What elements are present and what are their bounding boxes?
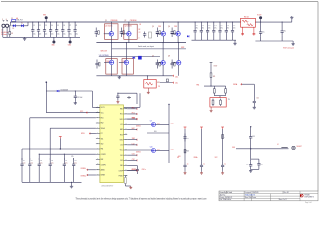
title block cols	[226, 191, 300, 201]
svg-text:2N7002: 2N7002	[136, 126, 141, 128]
svg-text:C61: C61	[187, 137, 190, 139]
svg-text:22u: 22u	[76, 34, 79, 36]
kelvin sense wire 2	[253, 27, 256, 35]
svg-text:Q8: Q8	[168, 55, 170, 57]
label col VCC	[215, 157, 218, 159]
net label right 10	[132, 159, 138, 162]
wire right pin row 9	[127, 154, 131, 156]
wire col VCC	[222, 129, 224, 162]
svg-text:C4: C4	[51, 25, 53, 27]
ground bottom caps	[70, 182, 73, 188]
svg-text:47u: 47u	[227, 28, 229, 30]
svg-text:HB1: HB1	[132, 107, 135, 109]
DNP text Q1 box	[105, 25, 112, 27]
capacitor C42	[206, 21, 211, 40]
wire row6 res	[147, 131, 169, 133]
svg-text:HO1: HO1	[120, 114, 123, 116]
wire cap col 73.7 top	[71, 156, 74, 160]
comp box red	[210, 98, 226, 107]
net flag AGND	[81, 168, 96, 171]
DNP text Q4 box	[123, 61, 126, 63]
net flag DEMB	[81, 174, 96, 178]
alt-FET box Q4 row2	[122, 59, 133, 75]
wire source row1 to SW rail	[128, 36, 130, 43]
wire LO1 bst	[127, 118, 137, 121]
ground R7	[129, 186, 132, 189]
svg-text:2N7002: 2N7002	[136, 152, 141, 154]
capacitor C6	[61, 21, 66, 37]
svg-text:VOUT: VOUT	[214, 66, 218, 68]
gnd rail output caps	[192, 39, 237, 41]
svg-text:Designed: 12/04/2020: Designed: 12/04/2020	[245, 192, 259, 194]
wire drain row1	[128, 21, 129, 31]
capacitor C40	[194, 21, 199, 40]
sheet border right	[317, 2, 319, 192]
wire source row2 to PGND rail	[125, 65, 127, 76]
svg-text:ILIM1: ILIM1	[171, 123, 174, 125]
title text row4	[220, 198, 287, 201]
kelvin sense wire 1	[241, 27, 244, 35]
capacitor C53	[249, 126, 255, 149]
wire right pin row 10	[127, 159, 131, 161]
wire drain row2	[111, 42, 112, 60]
capacitor C22	[38, 158, 43, 182]
label Q6	[168, 26, 177, 28]
svg-text:C44: C44	[221, 25, 224, 27]
svg-text:COMP1: COMP1	[101, 154, 106, 156]
sense component	[166, 79, 168, 82]
label Q2	[124, 20, 137, 22]
label switch node	[138, 45, 154, 48]
net label right 9	[132, 154, 138, 157]
svg-text:B1: B1	[140, 24, 142, 26]
svg-text:C41: C41	[202, 25, 205, 27]
transistor Q1	[104, 32, 114, 36]
title text row3	[220, 196, 257, 199]
net flag col SS	[184, 127, 187, 129]
svg-text:HB2: HB2	[120, 129, 123, 131]
pin 24 right	[120, 154, 127, 157]
wire drain row2	[126, 42, 127, 60]
svg-text:C7: C7	[69, 25, 71, 27]
svg-text:47u: 47u	[202, 28, 204, 30]
svg-text:VCC: VCC	[101, 112, 104, 114]
svg-text:HB2: HB2	[132, 128, 135, 130]
label SW2	[181, 47, 184, 49]
net label right 6	[132, 138, 138, 141]
svg-text:COMP: COMP	[118, 170, 122, 172]
capacitor C30	[127, 165, 146, 174]
svg-text:Q1: Q1	[105, 20, 107, 22]
capacitor C54	[246, 159, 252, 169]
svg-text:LO2: LO2	[120, 145, 123, 147]
label col1 flag	[178, 156, 181, 158]
ground 5V caps	[249, 169, 252, 172]
wire right pin row 0	[127, 108, 131, 110]
power bar VOUT div	[210, 63, 218, 68]
svg-text:0.1u: 0.1u	[40, 163, 43, 165]
svg-text:VCCX: VCCX	[101, 107, 105, 109]
svg-text:0.1u: 0.1u	[23, 163, 26, 165]
gate capacitor row1	[120, 28, 125, 38]
label Q1	[105, 20, 118, 22]
wire R1 to gnd rail	[9, 35, 11, 38]
wire Q10 to bus	[156, 149, 174, 151]
wire 5V rail	[232, 147, 283, 149]
svg-text:R11: R11	[213, 76, 216, 78]
capacitor C1	[31, 21, 36, 37]
svg-text:22u: 22u	[51, 34, 54, 36]
wire FB col	[50, 128, 96, 160]
svg-text:2.2: 2.2	[139, 32, 141, 34]
ground C12	[74, 102, 77, 105]
resistor R17 col3	[222, 135, 226, 139]
svg-text:R10: R10	[157, 82, 160, 84]
wire sense to vout	[255, 21, 291, 23]
transistor Q10	[127, 147, 155, 154]
wire connector to fuse	[9, 22, 11, 26]
pin 16 right	[120, 113, 127, 116]
svg-text:CS1: CS1	[132, 154, 135, 156]
svg-text:Q2 CSD185: Q2 CSD185	[125, 25, 132, 27]
pin 5 left	[96, 127, 105, 130]
svg-text:22u: 22u	[33, 34, 36, 36]
svg-text:C20: C20	[23, 160, 26, 162]
pin 9 left	[96, 148, 104, 151]
wire col SS	[184, 129, 186, 162]
earth vout terminal	[290, 16, 293, 22]
wire right pin row 6	[127, 139, 131, 141]
LO gate wire	[99, 54, 160, 57]
pin 13 left	[96, 168, 105, 171]
wire col VDDA	[201, 129, 203, 162]
svg-text:C21: C21	[31, 160, 34, 162]
svg-text:EN1: EN1	[101, 118, 104, 120]
wire drain row2	[163, 42, 164, 60]
net flag GND top2	[6, 19, 8, 22]
svg-text:C55: C55	[260, 163, 263, 165]
inductor L1	[138, 56, 141, 59]
svg-text:SS2: SS2	[101, 144, 104, 146]
wire VCC loop top	[46, 90, 92, 92]
title text row2	[220, 194, 256, 197]
svg-text:COMP2: COMP2	[101, 164, 106, 166]
node VCC dot	[46, 81, 48, 112]
svg-text:0.1u: 0.1u	[31, 163, 34, 165]
pin 8 left	[96, 142, 104, 145]
boot diode D3	[187, 35, 189, 37]
svg-text:CS2: CS2	[120, 160, 123, 162]
svg-text:C8: C8	[76, 25, 78, 27]
title text row1	[220, 191, 289, 194]
svg-text:Q10: Q10	[150, 147, 153, 149]
net flag RT	[81, 132, 96, 135]
svg-text:22u: 22u	[63, 34, 66, 36]
capacitor C62	[221, 162, 226, 171]
PGND rail	[96, 75, 173, 77]
transistor Q2	[121, 32, 131, 36]
capacitor C12	[74, 90, 83, 101]
net tie circle 1	[52, 37, 56, 46]
pin 28 right	[119, 174, 128, 177]
gnd rail caps	[28, 36, 80, 38]
svg-text:R16: R16	[186, 150, 189, 152]
label VIN input	[1, 32, 9, 36]
capacitor C24	[63, 158, 68, 182]
wire SS1 col	[22, 149, 96, 160]
kelvin CS line	[160, 82, 179, 85]
svg-text:DEMB: DEMB	[101, 175, 105, 177]
svg-text:GND: GND	[68, 45, 71, 47]
svg-text:22u: 22u	[39, 34, 42, 36]
svg-text:C3: C3	[45, 25, 47, 27]
svg-text:C30 1u: C30 1u	[142, 169, 146, 171]
svg-text:0.1u: 0.1u	[65, 163, 68, 165]
svg-text:0.1u: 0.1u	[74, 163, 77, 165]
wire drain row2	[178, 42, 179, 60]
svg-text:HO1: HO1	[132, 112, 135, 114]
capacitor C52	[253, 84, 259, 106]
svg-text:VCC: VCC	[120, 150, 123, 152]
capacitor C3	[43, 21, 48, 37]
svg-text:C42: C42	[208, 25, 211, 27]
svg-text:CSD: CSD	[158, 26, 161, 28]
svg-text:FB1: FB1	[101, 149, 104, 151]
svg-text:22u: 22u	[57, 34, 60, 36]
pin 2 left	[96, 111, 104, 114]
label SW1	[101, 51, 107, 53]
wire resistor branch	[9, 26, 11, 32]
inductor L2	[277, 144, 289, 149]
svg-text:HB1: HB1	[120, 109, 123, 111]
gate capacitor row2	[95, 60, 100, 69]
svg-text:C5: C5	[57, 25, 59, 27]
svg-text:100k: 100k	[157, 123, 160, 125]
capacitor C8	[74, 21, 79, 37]
svg-text:FB1: FB1	[120, 165, 123, 167]
ground col VCC	[221, 170, 224, 174]
transistor Q4	[119, 60, 129, 64]
label Q5	[152, 26, 161, 28]
label Q2b	[139, 24, 142, 39]
resistor R14	[212, 99, 214, 106]
capacitor C23	[49, 158, 54, 182]
net flag VDDA mid	[59, 137, 62, 150]
capacitor C45	[225, 21, 230, 40]
sense box R20	[241, 16, 256, 27]
wire right pin row 7	[127, 144, 131, 146]
svg-text:SW2: SW2	[181, 47, 184, 49]
ground sense	[147, 88, 150, 94]
title block frame	[219, 191, 318, 201]
wire Q9 to bus	[156, 123, 174, 125]
svg-text:Q2: Q2	[124, 20, 126, 22]
pin 14 left	[96, 174, 105, 177]
svg-text:C2: C2	[39, 25, 41, 27]
capacitor C25	[72, 158, 77, 182]
svg-text:1u: 1u	[187, 164, 189, 166]
DNP text Q2 box	[125, 25, 132, 27]
svg-text:LO1: LO1	[120, 124, 123, 126]
gnd rail input	[3, 36, 28, 38]
pin 15 right	[120, 107, 127, 110]
wire source row1 to SW rail	[177, 36, 179, 43]
wire to bias cap	[233, 83, 254, 86]
ground col SS	[184, 170, 187, 174]
pin 17 right	[120, 118, 128, 121]
svg-text:ILIM2: ILIM2	[171, 149, 174, 151]
wire SS2 col	[39, 154, 96, 160]
svg-text:C46: C46	[233, 25, 236, 27]
wire D1 to D2	[15, 25, 21, 27]
wire EN1 to col	[30, 118, 96, 160]
TVS diode D1	[12, 24, 16, 30]
wire source row1 to SW rail	[162, 36, 164, 43]
svg-text:Q9: Q9	[150, 121, 152, 123]
svg-text:R2: R2	[139, 29, 141, 31]
DNP text Q3 box	[107, 61, 110, 63]
svg-text:CS1: CS1	[120, 155, 123, 157]
svg-text:C25: C25	[74, 160, 77, 162]
resistor R15	[220, 99, 222, 106]
gate capacitor row1	[156, 28, 161, 38]
wire D2 up to rail	[23, 22, 28, 26]
svg-text:VOUT sense gnd: VOUT sense gnd	[283, 47, 294, 49]
svg-text:CS2: CS2	[132, 159, 135, 161]
pin 3 left	[96, 116, 104, 119]
TI logo	[300, 193, 314, 198]
svg-text:0.1u: 0.1u	[262, 32, 265, 34]
capacitor C4	[49, 21, 54, 37]
ground C13	[116, 100, 119, 103]
op-amp U1 controller	[100, 105, 124, 187]
net flag left pin2	[80, 111, 87, 114]
svg-text:47u: 47u	[221, 28, 223, 30]
svg-text:VIN 8-18V: VIN 8-18V	[1, 32, 9, 34]
svg-text:C40: C40	[196, 25, 199, 27]
svg-text:SS1: SS1	[178, 156, 181, 158]
svg-text:CS2+: CS2+	[175, 76, 179, 78]
pin 26 right	[120, 164, 127, 167]
net label right 0	[132, 107, 138, 110]
svg-text:SW2: SW2	[132, 138, 135, 140]
svg-text:CSD18540: CSD18540	[130, 20, 137, 22]
svg-text:R20 2m: R20 2m	[244, 16, 250, 18]
capacitor C41	[200, 21, 205, 40]
wire rail to sense box	[147, 75, 148, 79]
fuse F1	[11, 17, 18, 22]
label VIN_FLT	[17, 20, 23, 22]
svg-text:47u: 47u	[214, 28, 216, 30]
capacitor C7	[67, 21, 72, 37]
net label right 1	[132, 112, 138, 115]
label comp	[228, 99, 230, 101]
pin 10 left	[96, 153, 106, 156]
wire source row2 to PGND rail	[178, 65, 180, 76]
capacitor C20	[20, 158, 25, 182]
gate capacitor row2	[156, 60, 161, 69]
transistor Q7	[156, 61, 166, 65]
pin 22 right	[120, 143, 127, 146]
svg-text:BST1: BST1	[132, 118, 136, 120]
gnd rail bottom caps	[22, 181, 82, 183]
ground power stage A	[118, 76, 121, 79]
alt-FET box Q1 row1	[105, 24, 119, 40]
svg-text:D1: D1	[12, 28, 14, 30]
pin 19 right	[120, 128, 127, 131]
svg-text:C1: C1	[33, 25, 35, 27]
svg-text:22u: 22u	[45, 34, 48, 36]
svg-text:PG: PG	[132, 169, 134, 171]
net label right row13	[127, 169, 137, 172]
page number text	[305, 202, 312, 204]
disclaimer text	[76, 198, 207, 201]
wire source row2 to PGND rail	[111, 65, 113, 76]
sense resistor box R10	[144, 80, 160, 89]
svg-text:HO2: HO2	[120, 134, 123, 136]
net tie circle 2	[68, 37, 72, 46]
svg-text:VOSNS-: VOSNS-	[81, 168, 87, 170]
svg-text:D2: D2	[21, 23, 23, 25]
pin 18 right	[120, 123, 127, 126]
power flag VOUT	[257, 15, 262, 23]
svg-text:C52: C52	[256, 97, 259, 99]
svg-text:R1: R1	[11, 33, 13, 35]
svg-text:This schematic is provided as-: This schematic is provided as-is for ref…	[76, 198, 207, 201]
title block rows	[219, 194, 318, 199]
svg-text:0.1u: 0.1u	[51, 163, 54, 165]
ground vout	[291, 41, 294, 46]
ground output caps	[233, 40, 236, 45]
svg-text:SW1: SW1	[120, 119, 123, 121]
svg-text:RT: RT	[101, 133, 103, 135]
label PGND right	[175, 76, 179, 78]
svg-text:VDD: VDD	[232, 147, 235, 149]
net label right 2	[132, 118, 138, 121]
transistor Q5	[156, 32, 166, 36]
svg-text:D5 B0530W: D5 B0530W	[61, 90, 69, 92]
capacitor C2	[37, 21, 42, 37]
svg-text:SW2: SW2	[120, 139, 123, 141]
ground col VDDA	[200, 170, 203, 174]
svg-text:C53: C53	[252, 136, 255, 138]
resistor R12	[213, 86, 215, 96]
gate capacitor row1	[95, 28, 100, 38]
svg-text:L2: L2	[277, 144, 279, 146]
resistor R13	[225, 86, 227, 96]
pin 25 right	[120, 159, 127, 162]
svg-text:CSD: CSD	[174, 26, 177, 28]
svg-text:5V: 5V	[228, 99, 230, 101]
wire VIN rail to sense	[200, 21, 241, 23]
svg-text:Rev: E1: Rev: E1	[284, 192, 289, 194]
red label right of Q2 box	[139, 29, 141, 34]
wire source row2 to PGND rail	[162, 65, 164, 76]
gnd rail vout	[255, 40, 293, 42]
label vout sense gnd	[283, 47, 294, 49]
label col SS	[177, 157, 179, 159]
pin 12 left	[96, 163, 106, 166]
wire connector pin2 down	[3, 27, 7, 37]
wire bus right vert	[124, 93, 141, 107]
svg-text:C6: C6	[63, 25, 65, 27]
power flag VIN	[43, 15, 48, 23]
svg-text:47u: 47u	[208, 28, 210, 30]
label Q8	[168, 55, 170, 57]
ground C52	[253, 106, 256, 109]
wire VCC loop bottom	[46, 112, 100, 114]
pin 23 right	[120, 149, 127, 152]
